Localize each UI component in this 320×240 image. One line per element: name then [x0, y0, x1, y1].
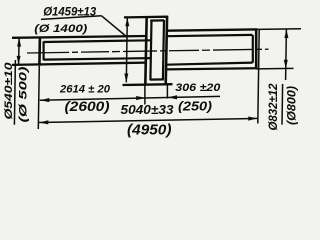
wire collar inner right edge	[163, 20, 164, 80]
arrowhead 5040 right	[248, 117, 258, 121]
wire extension line below right end	[258, 30, 259, 124]
wire extension line below left end	[38, 66, 39, 129]
dimension line diameter 1459 collar	[126, 17, 127, 82]
wire left journal inner bottom	[44, 58, 151, 60]
wire extension line below collar left edge	[144, 85, 146, 105]
wire collar outer bottom with left extension line	[123, 83, 173, 86]
arrowhead 2614 right	[136, 96, 146, 100]
wire barrel outer top	[166, 29, 257, 30]
arrowhead dim1459 down	[124, 74, 128, 83]
wire collar outer right edge	[166, 16, 167, 85]
dimension line diameter 540 left	[18, 38, 21, 65]
svg-text:Ø1459±13: Ø1459±13	[43, 7, 97, 19]
wire collar inner bottom	[150, 78, 164, 80]
wire left journal inner left edge	[42, 41, 44, 60]
wire collar outer top with left extension line	[124, 16, 168, 19]
wire barrel inner bottom	[166, 63, 252, 65]
wire barrel outer top extension to right	[257, 28, 301, 31]
leader shelf for collar dimension text	[41, 16, 102, 20]
dimension line 5040 overall	[39, 118, 258, 122]
rule of rotated left dimension text	[14, 60, 15, 125]
centerline	[27, 49, 269, 53]
arrowhead 306 right-side pointing left	[168, 95, 178, 99]
wire collar inner left edge	[150, 20, 151, 80]
svg-text:2614 ± 20: 2614 ± 20	[59, 83, 111, 95]
wire barrel inner top	[166, 35, 252, 36]
arrowhead dim832 down	[284, 60, 288, 69]
svg-text:(Ø 500): (Ø 500)	[17, 66, 29, 122]
wire barrel outer bottom	[166, 68, 257, 69]
wire left journal outer bottom with left extension	[12, 63, 147, 65]
svg-text:306 ±20: 306 ±20	[175, 82, 221, 94]
wire barrel outer right edge	[255, 29, 258, 70]
svg-text:5040±33: 5040±33	[121, 103, 174, 117]
svg-text:(Ø 1400): (Ø 1400)	[34, 23, 87, 35]
arrowhead dim540 down	[17, 56, 21, 65]
wire barrel inner right edge	[252, 35, 254, 63]
wire extension line below collar right edge	[166, 85, 168, 99]
wire collar outer left edge	[145, 16, 146, 85]
arrowhead dim540 up	[17, 38, 21, 47]
arrowhead 2614 left	[40, 98, 50, 102]
wire collar inner top	[150, 19, 164, 21]
svg-text:(2600): (2600)	[65, 98, 110, 114]
svg-text:Ø540±10: Ø540±10	[3, 61, 15, 119]
dimension line 2614 and 306 shared	[40, 96, 220, 100]
svg-text:Ø832±12: Ø832±12	[266, 83, 280, 130]
dimension line diameter 832 right	[285, 29, 288, 80]
svg-text:(Ø800): (Ø800)	[285, 86, 299, 125]
wire left journal outer left edge	[38, 37, 41, 66]
svg-text:(4950): (4950)	[127, 122, 172, 139]
wire left journal outer top with left extension	[12, 36, 147, 38]
svg-text:(250): (250)	[178, 99, 212, 113]
arrowhead 5040 left	[39, 120, 49, 124]
rule of rotated right dimension text	[281, 84, 284, 125]
wire left journal inner top	[44, 40, 151, 42]
arrowhead dim1459 up	[125, 17, 129, 26]
arrowhead dim832 up	[284, 29, 288, 38]
leader diagonal to collar dimension line	[102, 16, 128, 37]
wire barrel bottom extension to right	[256, 67, 294, 70]
